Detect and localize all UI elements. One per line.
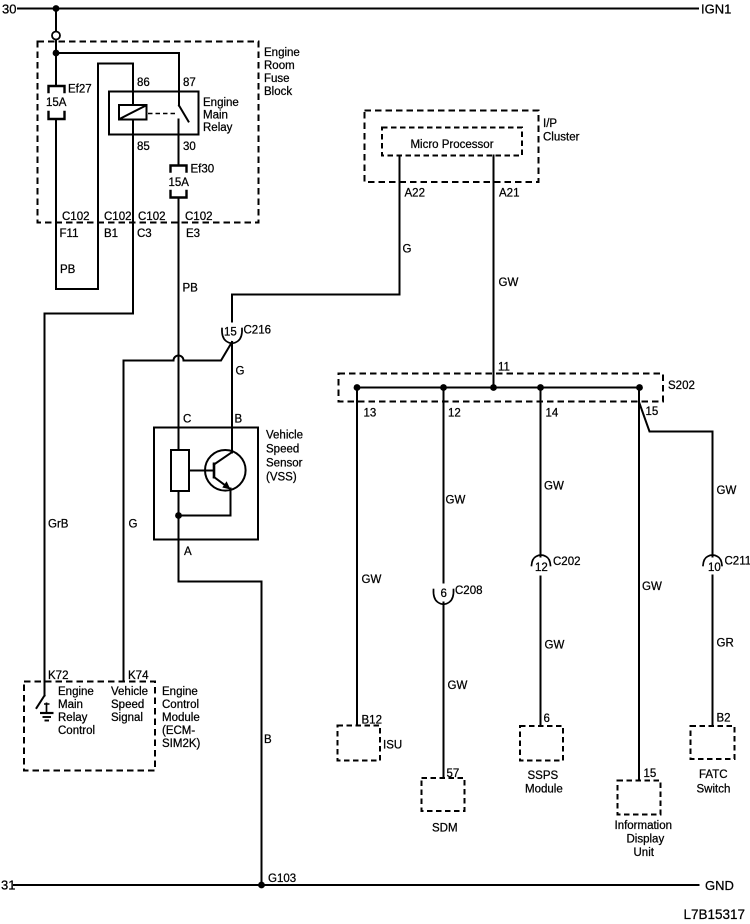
wire S202-12 (GW) to C208	[443, 388, 445, 583]
svg-text:A21: A21	[499, 188, 519, 200]
connector C211	[703, 555, 722, 566]
wire C208 to SDM (GW)	[443, 603, 445, 779]
svg-text:Ef27: Ef27	[68, 84, 92, 96]
svg-text:10: 10	[708, 562, 721, 574]
svg-text:PB: PB	[60, 264, 76, 276]
svg-text:G: G	[236, 366, 245, 378]
svg-text:K74: K74	[128, 670, 149, 682]
svg-text:GW: GW	[545, 640, 565, 652]
svg-text:Signal: Signal	[111, 712, 143, 724]
connector C216	[222, 329, 242, 344]
svg-text:PB: PB	[183, 283, 199, 295]
svg-text:Engine: Engine	[58, 686, 94, 698]
wire S202-15 branch (GW) to C211	[639, 402, 713, 557]
svg-text:Main: Main	[203, 110, 228, 122]
wire resistor to node A to bus (B)	[179, 491, 262, 885]
wire bus 30	[18, 8, 698, 10]
ISU box	[338, 726, 381, 761]
svg-text:G: G	[129, 519, 138, 531]
wire relay pin 85 to C3	[132, 120, 134, 314]
svg-text:S202: S202	[668, 380, 695, 392]
resistor (VSS internal)	[171, 450, 189, 491]
junction S202 pin 12	[440, 384, 447, 391]
transistor emitter with arrow	[214, 477, 230, 489]
svg-text:B: B	[235, 414, 243, 426]
svg-text:13: 13	[364, 408, 377, 420]
svg-text:IGN1: IGN1	[701, 2, 731, 17]
svg-text:ISU: ISU	[383, 740, 402, 752]
svg-text:6: 6	[441, 588, 447, 600]
svg-text:GW: GW	[717, 485, 737, 497]
svg-text:Display: Display	[627, 834, 665, 846]
svg-text:B2: B2	[717, 713, 731, 725]
svg-text:Micro Processor: Micro Processor	[410, 139, 493, 151]
relay U1 box	[109, 92, 199, 135]
Information Display Unit box	[618, 781, 661, 815]
wire C3 to GrB to ECM K72	[45, 314, 134, 696]
svg-text:C3: C3	[137, 228, 152, 240]
junction S202 pin 14	[537, 384, 544, 391]
svg-text:C211: C211	[725, 556, 750, 568]
svg-text:G: G	[403, 244, 412, 256]
svg-text:6: 6	[544, 713, 550, 725]
wire connector to junction	[55, 40, 57, 86]
wire C216 branch to ECM K74 (G) with hop	[124, 342, 233, 682]
fuse Ef30 15A	[171, 166, 187, 172]
svg-text:15: 15	[644, 768, 657, 780]
svg-text:K72: K72	[48, 670, 68, 682]
svg-text:G103: G103	[268, 873, 296, 885]
wire A22 (G) to C216	[232, 156, 400, 322]
svg-text:C202: C202	[553, 556, 581, 568]
relay coil-switch link (dashed)	[148, 113, 176, 115]
svg-text:15A: 15A	[46, 97, 67, 109]
svg-text:Engine: Engine	[264, 47, 300, 59]
svg-text:GR: GR	[717, 638, 734, 650]
svg-text:Room: Room	[264, 60, 295, 72]
svg-text:30: 30	[2, 2, 16, 17]
junction on bus 30	[53, 5, 60, 12]
svg-text:Vehicle: Vehicle	[266, 430, 303, 442]
svg-text:14: 14	[546, 408, 559, 420]
wire splice bus S202	[357, 387, 640, 389]
svg-text:Speed: Speed	[266, 444, 299, 456]
fuse Ef27 15A	[49, 86, 65, 92]
I/P Cluster box	[365, 111, 539, 183]
wire S202-15 (GW) to IDU	[638, 388, 640, 781]
junction node A	[175, 512, 182, 519]
svg-text:SDM: SDM	[432, 823, 458, 835]
wire Ef27 to F11 (PB)	[55, 119, 57, 289]
svg-text:C102: C102	[104, 211, 132, 223]
svg-text:Ef30: Ef30	[191, 164, 215, 176]
svg-text:F11: F11	[60, 228, 79, 240]
wire feed to relay pin 87	[56, 53, 179, 106]
connector C208	[433, 590, 453, 605]
svg-text:SSPS: SSPS	[528, 770, 559, 782]
svg-text:C208: C208	[455, 585, 483, 597]
svg-text:C102: C102	[185, 211, 213, 223]
svg-text:Block: Block	[264, 86, 292, 98]
wire C211 to FATC (GR)	[712, 576, 714, 727]
svg-text:85: 85	[137, 141, 150, 153]
svg-text:I/P: I/P	[543, 118, 557, 130]
svg-text:87: 87	[183, 77, 196, 89]
wire relay pin 30 to Ef30	[178, 120, 180, 166]
wire A21 (GW) to S202 pin 11	[493, 156, 495, 388]
svg-text:SIM2K): SIM2K)	[162, 738, 201, 750]
wire emitter to node A	[179, 489, 231, 516]
svg-text:Engine: Engine	[162, 686, 198, 698]
junction S202 pin 15	[636, 384, 643, 391]
svg-text:Control: Control	[58, 725, 95, 737]
FATC Switch box	[691, 726, 735, 759]
connector C202	[532, 555, 551, 566]
wire bus 30 to connector	[55, 9, 57, 32]
wire C216 to VSS pin B (G)	[231, 342, 233, 453]
svg-text:GW: GW	[446, 495, 466, 507]
svg-text:Relay: Relay	[203, 122, 233, 134]
svg-text:12: 12	[535, 562, 548, 574]
svg-text:Cluster: Cluster	[543, 132, 580, 144]
junction node (feed split)	[53, 50, 60, 57]
VSS box	[154, 428, 258, 540]
svg-text:GND: GND	[705, 878, 734, 893]
svg-text:Engine: Engine	[203, 97, 239, 109]
svg-text:Information: Information	[615, 820, 673, 832]
transistor collector	[214, 453, 232, 465]
svg-text:E3: E3	[186, 228, 200, 240]
svg-text:GrB: GrB	[48, 519, 69, 531]
wire C202 to SSPS (GW)	[540, 577, 542, 727]
svg-text:FATC: FATC	[699, 769, 728, 781]
svg-text:B1: B1	[104, 228, 118, 240]
svg-text:Sensor: Sensor	[266, 458, 303, 470]
svg-text:Speed: Speed	[111, 699, 144, 711]
wire Ef30 to E3 to VSS pin C (PB)	[178, 198, 180, 451]
svg-text:Module: Module	[162, 712, 200, 724]
svg-text:GW: GW	[499, 277, 519, 289]
svg-text:Relay: Relay	[58, 712, 88, 724]
svg-text:12: 12	[448, 408, 461, 420]
svg-text:Switch: Switch	[697, 784, 731, 796]
svg-text:GW: GW	[362, 574, 382, 586]
wire S202-14 (GW) to C202	[540, 388, 542, 557]
wire S202-13 (GW) to ISU	[356, 388, 358, 726]
junction S202 pin 13	[354, 384, 361, 391]
svg-text:A22: A22	[405, 188, 425, 200]
svg-text:A: A	[184, 546, 192, 558]
svg-text:Vehicle: Vehicle	[111, 686, 148, 698]
svg-text:Fuse: Fuse	[264, 73, 290, 85]
wire bus 31	[14, 884, 699, 886]
relay switch arm	[179, 106, 189, 122]
svg-text:B: B	[264, 734, 272, 746]
connector circle (fuse block feed)	[52, 32, 60, 40]
relay coil	[119, 105, 147, 120]
ECM box	[24, 682, 155, 771]
svg-text:C216: C216	[244, 325, 272, 337]
junction S202 pin 11	[490, 384, 497, 391]
svg-text:30: 30	[183, 141, 196, 153]
SDM box	[422, 778, 465, 811]
svg-text:86: 86	[137, 77, 150, 89]
svg-text:Unit: Unit	[634, 847, 655, 859]
svg-text:15: 15	[646, 406, 659, 418]
svg-text:GW: GW	[642, 581, 662, 593]
svg-text:15: 15	[224, 327, 237, 339]
splice S202 box	[339, 374, 664, 402]
ECM switch K72	[37, 696, 45, 709]
ground (ECM internal)	[44, 703, 50, 705]
svg-text:(ECM-: (ECM-	[162, 725, 195, 737]
svg-text:L7B15317: L7B15317	[684, 907, 746, 922]
svg-text:GW: GW	[544, 481, 564, 493]
svg-text:11: 11	[498, 362, 510, 374]
Micro Processor box	[382, 128, 522, 156]
Engine Room Fuse Block box	[38, 42, 259, 223]
svg-text:GW: GW	[448, 680, 468, 692]
transistor base bar	[213, 463, 216, 479]
svg-text:Module: Module	[525, 784, 563, 796]
svg-text:C102: C102	[62, 211, 90, 223]
wire PB loop F11 to B1 to relay pin 86	[56, 64, 133, 290]
svg-text:C: C	[183, 414, 191, 426]
svg-text:15A: 15A	[169, 177, 190, 189]
junction G103	[258, 882, 265, 889]
wire base to resistor	[189, 470, 214, 472]
SSPS box	[520, 726, 563, 761]
svg-text:(VSS): (VSS)	[266, 472, 297, 484]
svg-text:C102: C102	[138, 211, 166, 223]
svg-text:Control: Control	[162, 699, 199, 711]
transistor Q1 (VSS)	[205, 450, 246, 491]
svg-text:Main: Main	[58, 699, 83, 711]
